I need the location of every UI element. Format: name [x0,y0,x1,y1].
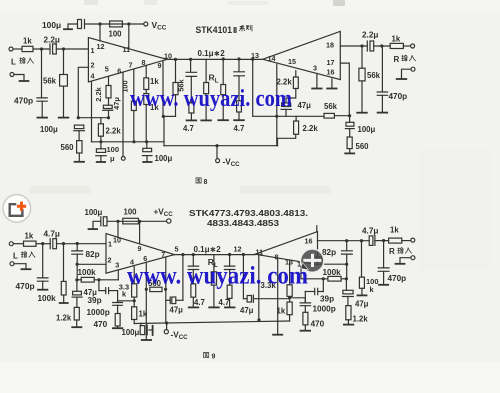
capacitor 2.2u L [49,44,51,54]
terminal R input [411,238,415,242]
svg-text:8: 8 [142,58,146,67]
svg-text:470p: 470p [389,92,408,101]
capacitor 0.1u bottom R [228,253,231,256]
svg-text:1.2k: 1.2k [353,314,369,323]
svg-text:100: 100 [107,145,120,154]
svg-text:100: 100 [124,207,138,216]
resistor 560 R [347,137,352,149]
terminal -Vcc top ckt [216,146,218,159]
wire bus1 [92,141,165,143]
terminal -Vcc bottom [166,323,168,330]
svg-text:56k: 56k [324,102,338,111]
svg-text:1k: 1k [277,306,286,315]
capacitor 47u R2 [345,279,347,291]
svg-text:9: 9 [212,354,216,361]
wire pin7 [165,257,167,323]
label shu-ru after L (bottom) [21,252,27,258]
wire pin9 [162,61,164,117]
svg-text:82p: 82p [86,250,100,259]
node feedback tap [251,58,254,61]
resistor 470 L [115,314,120,327]
svg-text:1: 1 [108,240,112,249]
op-amp U2 left half [106,234,174,274]
svg-text:1000p: 1000p [313,304,336,313]
svg-text:10: 10 [164,52,172,61]
svg-text:1k: 1k [139,309,148,318]
resistor 1k input R [389,238,402,243]
capacitor 470p R [381,46,383,92]
resistor 1.2k L [74,307,79,320]
capacitor 100u -Vcc [140,323,142,325]
svg-text:3: 3 [313,64,317,73]
node junction [40,47,43,50]
svg-text:5: 5 [175,245,179,254]
svg-text:560: 560 [61,143,75,152]
wire Vcc stub right amp [316,226,318,232]
wire 2.2k bottom link [277,134,296,138]
svg-text:4.7: 4.7 [194,298,205,307]
terminal R gnd [411,256,415,260]
wire pin16 gnd stub [331,79,333,88]
svg-text:14: 14 [268,54,276,63]
resistor 56k feedback [175,59,177,82]
wire pin18 [340,45,367,47]
svg-text:100μ: 100μ [40,125,58,134]
svg-text:15: 15 [288,57,296,66]
wire -Vcc bus bottom [134,321,289,324]
svg-text:2: 2 [108,256,112,265]
capacitor 1000p R [290,298,306,303]
wire pin3 gnd stub [316,74,318,88]
resistor 56k L [63,49,65,75]
resistor 560 L [77,141,82,153]
svg-text:47μ: 47μ [298,101,312,110]
svg-text:1k: 1k [150,77,159,86]
capacitor 1000p L [117,291,119,303]
node [99,140,102,143]
terminal L input [9,47,13,51]
resistor 3.3k R [289,260,291,285]
ground hook left of 100u [93,221,101,228]
ground [75,161,84,163]
resistor 1k input L [24,241,37,246]
svg-text:16: 16 [305,236,313,245]
capacitor 100u bus1 right [146,142,148,149]
faint showthrough smudges [333,0,345,6]
wire pin6 mute terminal [122,72,124,156]
svg-text:12: 12 [234,244,242,253]
capacitor 47u output L [166,299,170,301]
svg-text:4: 4 [91,72,95,81]
capacitor 100u pin2 col [74,125,83,129]
wire fb col [181,253,184,256]
svg-text:1k: 1k [25,232,34,241]
wire 1000p link [118,300,135,302]
svg-text:18: 18 [326,41,334,50]
svg-text:4.7: 4.7 [234,124,245,133]
capacitor 100u fb R [349,116,351,123]
capacitor 470p R2 [382,239,385,242]
node 56k top [62,47,65,50]
capacitor 82p L [76,244,78,251]
svg-text:100μ: 100μ [85,208,103,217]
svg-text:2.2μ: 2.2μ [44,36,60,45]
capacitor 0.1u bottom L [192,253,195,256]
capacitor 0.1u L [190,59,192,72]
svg-text:4.7: 4.7 [183,124,194,133]
terminal +Vcc [167,219,171,223]
terminal R input [411,44,415,48]
capacitor 47u output R [242,255,244,299]
svg-text:39p: 39p [320,294,334,303]
wire pin5 [108,76,110,85]
capacitor 47u L [76,280,78,291]
svg-text:0.1μ∗2: 0.1μ∗2 [198,49,226,58]
svg-text:7: 7 [161,250,165,259]
wire pin4 [91,81,93,142]
wire pin8 [277,258,279,334]
svg-text:4.7μ: 4.7μ [44,229,60,238]
wire output [174,254,255,256]
terminal L gnd [10,262,14,266]
svg-text:1: 1 [91,46,95,55]
terminal L gnd [10,73,14,77]
svg-text:100k: 100k [323,268,342,277]
svg-text:4833.4843.4853: 4833.4843.4853 [207,218,279,228]
wire -Vcc bus top ckt [164,145,278,147]
ground hook left of 100u cap [68,24,78,29]
node [77,116,80,119]
resistor 4.7 bottom R [227,285,232,298]
resistor 1k L [132,307,137,320]
wire pin10 [117,221,119,237]
wire pin3 [117,270,119,280]
wire pin14 [300,262,302,279]
svg-text:www. wuyazi. com: www. wuyazi. com [130,86,292,112]
svg-text:1k: 1k [392,35,401,44]
svg-text:39p: 39p [88,296,102,305]
svg-text:13: 13 [251,51,259,60]
resistor 56k R input bias [361,46,363,68]
svg-text:100μ: 100μ [42,20,61,30]
svg-text:100μ: 100μ [358,125,376,134]
capacitor 470p L [42,244,44,278]
resistor 1k pin8 lower [144,94,149,105]
resistor 3.3k L [133,266,135,284]
resistor 100k bias L [63,244,65,282]
svg-text:1000p: 1000p [87,308,110,317]
label shu-ru after R (bottom) [398,248,404,254]
svg-text:47μ: 47μ [355,299,369,308]
svg-text:47μ: 47μ [112,97,121,110]
resistor 100 pin7 [133,69,135,101]
svg-text:9: 9 [158,61,162,70]
svg-text:100: 100 [109,30,123,39]
svg-text:100k: 100k [38,294,57,303]
svg-text:2.2k: 2.2k [106,127,122,136]
svg-text:100μ: 100μ [155,154,173,163]
svg-text:1k: 1k [390,225,399,234]
wire output L [167,58,263,60]
label shu-ru after L (top) [20,58,26,64]
wire pin2 [77,263,106,265]
wire [33,48,50,50]
wire pin12 [99,24,101,41]
svg-text:R: R [389,247,395,256]
resistor 100k fb R [328,276,341,281]
svg-text:56k: 56k [43,77,57,86]
resistor 1k R [287,302,292,315]
wire pin15 R [318,263,347,265]
wire pin11 [128,24,130,49]
op-amp U1 right half [263,31,341,79]
svg-text:17: 17 [327,58,335,67]
label xi-lie title [239,25,244,31]
svg-text:11: 11 [256,247,264,256]
wire to pin1 [56,48,88,50]
svg-text:4.7μ: 4.7μ [362,227,378,236]
svg-text:100μ: 100μ [122,328,140,337]
resistor 2.2k pin5 [106,86,111,98]
resistor 4.7 bottom L [191,284,196,297]
wire pin14 [276,64,278,145]
resistor 100k fb L [77,279,81,281]
svg-text:3: 3 [115,260,119,269]
resistor 100 rail [123,218,139,224]
svg-text:2: 2 [91,61,95,70]
svg-text:470: 470 [94,320,108,329]
wire node row [78,117,108,119]
svg-text:11: 11 [123,45,131,54]
label tu 9 [203,352,208,357]
wire pin16 input R [318,240,370,242]
ground [37,117,47,119]
svg-text:0.1μ∗2: 0.1μ∗2 [194,245,222,254]
svg-text:470p: 470p [14,96,33,106]
svg-text:16: 16 [327,68,335,77]
capacitor 39p L [99,280,106,291]
resistor 56k fb R [324,113,334,118]
wire pin6 [145,262,147,339]
capacitor 82p R [346,241,348,251]
wire pin17 [340,63,349,116]
capacitor 2.2u R [366,41,368,51]
resistor 560 [150,287,162,291]
resistor 2.2k lower R [295,116,297,121]
svg-text:10: 10 [113,235,121,244]
node 0.1u col [189,58,192,61]
resistor RL load L [205,59,207,82]
resistor 1.2k R [346,306,351,320]
Vcc rail wire [85,23,144,25]
terminal L input [9,242,13,246]
node pin11 junction [127,22,130,25]
svg-text:470p: 470p [388,274,407,283]
svg-text:μ: μ [110,154,115,163]
svg-text:470p: 470p [16,281,35,291]
resistor 2.2k lower [100,118,102,124]
resistor 1k pin8 upper [145,66,147,78]
svg-text:II: II [233,25,237,35]
svg-text:100: 100 [121,80,130,92]
svg-text:1k: 1k [23,37,32,46]
svg-text:8: 8 [204,179,208,186]
wire feedback R [252,59,254,116]
resistor 100 top [110,21,123,27]
wire pin9 [139,221,141,243]
svg-text:100k: 100k [78,268,97,277]
ground bar [64,28,72,30]
terminal Vcc [144,22,148,26]
capacitor 39p R [304,292,306,303]
node pin12 junction [98,22,101,25]
capacitor 100u top [100,217,102,226]
wire Vcc rail [107,220,167,222]
capacitor 47u R [282,103,291,107]
svg-text:1.2k: 1.2k [56,313,72,322]
svg-text:R: R [394,55,400,64]
svg-text:56k: 56k [367,71,381,80]
svg-text:4.7: 4.7 [219,298,230,307]
capacitor 4.7u L [49,239,51,249]
capacitor 47u pin5 [103,105,112,108]
label tu 8 [196,178,201,183]
resistor 2.2k pin15 [295,71,297,77]
svg-text:L: L [13,252,18,261]
node pin12 tap [242,253,245,256]
resistor 1k input L [22,46,33,51]
capacitor 100u top-left [78,20,82,29]
label shu-ru after R (top) [402,55,408,61]
svg-text:47μ: 47μ [170,305,184,314]
svg-text:6: 6 [117,67,121,76]
svg-text:2.2k: 2.2k [303,124,319,133]
svg-text:STK4773.4793.4803.4813.: STK4773.4793.4803.4813. [189,208,308,218]
svg-text:5: 5 [105,65,109,74]
svg-text:2.2k: 2.2k [94,86,103,101]
capacitor 100u bus1 left [100,142,102,149]
resistor 4.7 R-ch [222,57,225,60]
ground [14,75,24,81]
op-amp U1 (STK left half) [88,38,167,83]
capacitor 470p L [41,49,43,97]
capacitor 4.7u R [369,236,373,246]
svg-text:560: 560 [356,142,370,151]
svg-text:82p: 82p [322,248,336,257]
resistor 100k bias R [361,241,363,277]
wire pin11 [258,256,260,321]
terminal R gnd [411,67,415,71]
svg-text:12: 12 [97,42,105,51]
svg-text:STK4101: STK4101 [196,25,233,35]
resistor RL bottom [213,255,215,272]
capacitor 0.1u R-ch [237,57,240,60]
svg-text:www. wuyazi. com: www. wuyazi. com [127,261,308,290]
ground [59,117,69,119]
wire input [13,48,22,50]
node [107,116,110,119]
op-amp U2 right half [255,232,318,265]
resistor 470 R [303,312,308,325]
svg-text:470: 470 [311,319,325,328]
svg-text:7: 7 [129,60,133,69]
svg-text:9: 9 [138,244,142,253]
svg-text:47μ: 47μ [240,306,254,315]
resistor 1k input R [390,43,403,48]
wire pin2 [78,67,88,117]
svg-text:L: L [11,58,16,67]
svg-text:2.2μ: 2.2μ [362,31,378,40]
resistor 4.7 L [189,103,194,113]
